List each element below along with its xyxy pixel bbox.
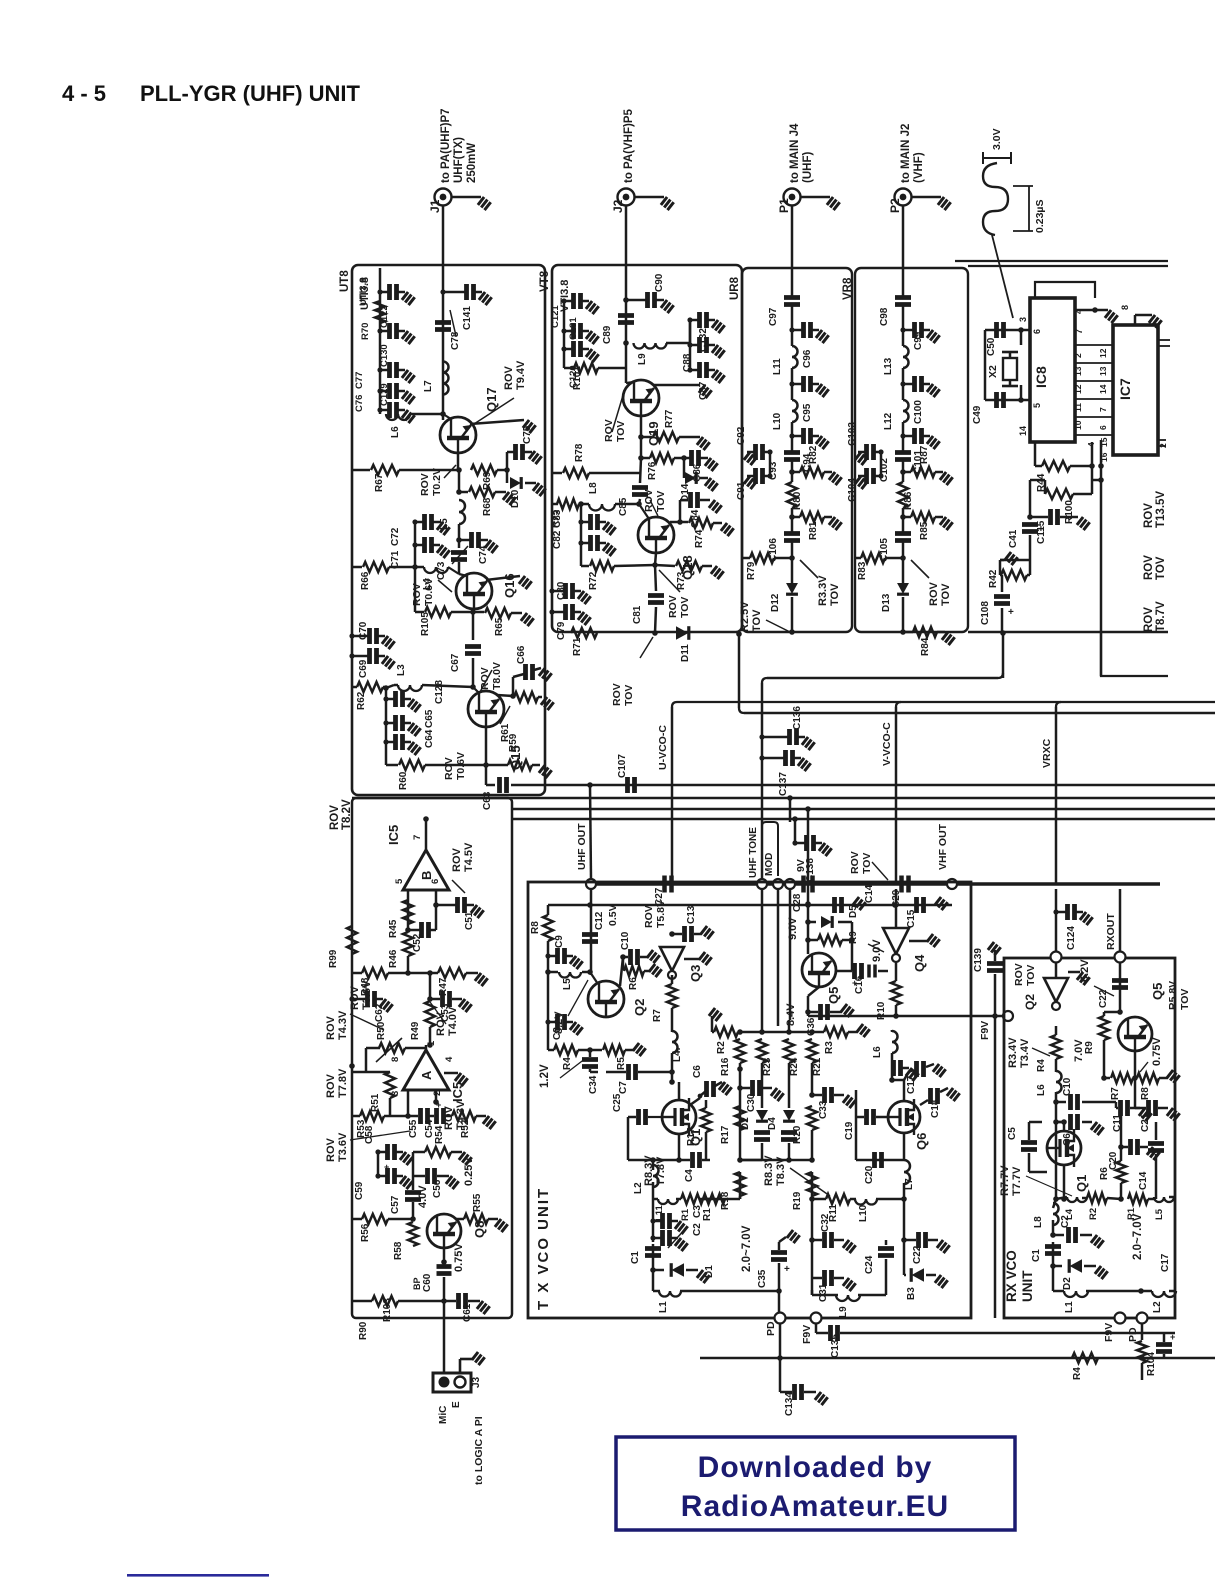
- resistor R101: [564, 367, 574, 370]
- label box around MOD: [762, 822, 778, 876]
- transistor Q19: [625, 343, 628, 383]
- svg-text:L1: L1: [1064, 1301, 1075, 1313]
- capacitor C2 variable: [653, 1237, 661, 1240]
- capacitor C1rx: [1045, 1247, 1061, 1254]
- svg-text:L13: L13: [883, 357, 894, 375]
- sub-box below IC7: [1101, 632, 1168, 676]
- svg-text:C7: C7: [618, 1081, 629, 1094]
- capacitor C88: [690, 344, 698, 347]
- svg-text:ROV: ROV: [443, 757, 455, 780]
- resistor R65: [473, 611, 484, 614]
- capacitor C50: [997, 322, 1004, 338]
- svg-text:ROV: ROV: [849, 851, 861, 874]
- blue underline bottom left: [127, 1574, 269, 1577]
- capacitor C90: [626, 299, 640, 302]
- svg-text:C32: C32: [820, 1213, 831, 1232]
- resistors R7rx R8rx: [1104, 1077, 1110, 1080]
- resistor R2 row: [709, 1008, 722, 1021]
- capacitor C61: [444, 1300, 456, 1303]
- diode D10: [506, 470, 509, 483]
- svg-text:F9V: F9V: [1103, 1323, 1115, 1342]
- svg-text:C55: C55: [408, 1119, 419, 1138]
- resistor R59: [485, 727, 488, 765]
- svg-text:C41: C41: [1008, 529, 1019, 548]
- svg-text:C16: C16: [854, 975, 865, 994]
- svg-text:ROV: ROV: [603, 419, 615, 442]
- row L11 R1: [658, 1199, 678, 1204]
- capacitor C29: [902, 876, 909, 893]
- IC U8 loop wire top: [1035, 282, 1095, 298]
- svg-text:ROV: ROV: [1013, 963, 1025, 986]
- wire y678 line: [767, 677, 998, 680]
- capacitor C131: [564, 300, 572, 303]
- svg-text:4: 4: [444, 1056, 455, 1062]
- op-amp IC5B: [403, 850, 449, 890]
- inductor L7tx: [904, 1160, 910, 1184]
- svg-text:R3: R3: [824, 1041, 835, 1054]
- capacitor C59: [378, 1175, 386, 1178]
- svg-text:2.0~7.0V: 2.0~7.0V: [1132, 1213, 1144, 1260]
- node F9V on RX box edge: [1003, 1011, 1013, 1021]
- capacitor C67 series: [472, 612, 475, 640]
- svg-text:U-VCO-C: U-VCO-C: [657, 725, 669, 770]
- svg-text:7: 7: [412, 835, 423, 840]
- svg-text:6: 6: [1032, 329, 1042, 334]
- svg-text:PD: PD: [1127, 1327, 1139, 1342]
- pointer R8.3V line: [790, 1168, 830, 1196]
- transistor Q3 buffer: [660, 947, 684, 971]
- svg-text:C95: C95: [802, 403, 813, 422]
- svg-text:R2.5V: R2.5V: [739, 601, 751, 632]
- resistor R9 row: [805, 937, 811, 943]
- svg-text:C96: C96: [802, 349, 813, 368]
- wire Q17 emitter down: [457, 453, 460, 470]
- svg-text:C75: C75: [522, 425, 533, 444]
- svg-text:R103: R103: [382, 1298, 393, 1322]
- wire bus 2: [512, 808, 1215, 811]
- svg-text:R50: R50: [376, 1021, 387, 1040]
- capacitor C86: [684, 457, 690, 460]
- svg-text:C28: C28: [792, 893, 803, 912]
- svg-text:R80: R80: [792, 491, 803, 510]
- capacitor C104: [875, 475, 881, 478]
- Q16 emitter down: [473, 609, 474, 612]
- capacitor C75: [506, 452, 509, 470]
- svg-text:R42: R42: [988, 569, 999, 588]
- capacitor C17tx: [889, 1077, 895, 1083]
- inductor L3: [398, 685, 422, 691]
- capacitor C138: [795, 842, 805, 845]
- capacitor C136: [762, 736, 788, 739]
- svg-text:R62: R62: [356, 691, 367, 710]
- capacitor C54 series: [429, 1115, 434, 1118]
- svg-text:R83: R83: [857, 561, 868, 580]
- wires row 1160: [737, 1157, 743, 1163]
- svg-text:C15: C15: [906, 909, 917, 928]
- vertical x739 from D11 line: [736, 631, 742, 637]
- resistor R80: [787, 482, 797, 508]
- node 9V third: [785, 879, 795, 889]
- svg-text:VHF OUT: VHF OUT: [937, 823, 949, 870]
- svg-text:IC5: IC5: [386, 825, 401, 845]
- resistor R78: [552, 472, 562, 475]
- svg-text:ROV: ROV: [479, 667, 491, 690]
- resistor R81: [789, 514, 795, 520]
- resistor R66: [352, 566, 362, 569]
- Q18 collector caps C84 R74: [670, 521, 680, 524]
- resistor R52: [445, 1115, 452, 1118]
- svg-text:L5: L5: [562, 978, 573, 990]
- svg-text:C80: C80: [556, 581, 567, 600]
- capacitor C82: [581, 542, 589, 545]
- svg-text:UT8: UT8: [339, 270, 351, 292]
- connector P1: [784, 189, 801, 206]
- svg-text:C70: C70: [358, 621, 369, 640]
- pointer ROV T4.0V: [430, 1002, 446, 1024]
- svg-text:T5.8V: T5.8V: [655, 900, 667, 928]
- resistor R85: [900, 514, 906, 520]
- capacitor C72: [415, 521, 423, 524]
- svg-text:+: +: [1008, 607, 1014, 618]
- svg-text:ROV: ROV: [451, 848, 463, 873]
- svg-text:T13.5V: T13.5V: [1155, 491, 1167, 528]
- capacitor C20rx: [1118, 1144, 1124, 1150]
- svg-text:14: 14: [1018, 426, 1028, 436]
- svg-text:C137: C137: [778, 772, 789, 796]
- capacitor C13: [669, 931, 675, 937]
- svg-text:T4.3V: T4.3V: [337, 1010, 349, 1040]
- svg-text:Q6: Q6: [914, 1133, 929, 1150]
- wire P1 down: [791, 206, 794, 269]
- svg-text:ROV: ROV: [643, 905, 655, 928]
- svg-text:C81: C81: [632, 605, 643, 624]
- resistor R6: [622, 957, 625, 970]
- vertical x1003 from C108: [1000, 630, 1006, 636]
- svg-text:C104: C104: [847, 478, 858, 502]
- capacitor C71: [415, 544, 423, 547]
- svg-text:L2: L2: [1152, 1301, 1163, 1313]
- pointer ROV TOV Q18 emitter: [659, 570, 680, 592]
- inductor L4: [415, 566, 424, 569]
- svg-text:VT8: VT8: [539, 270, 551, 292]
- svg-text:C69: C69: [358, 659, 369, 678]
- Q6 source down: [903, 1133, 906, 1160]
- svg-text:ROV: ROV: [611, 683, 623, 706]
- svg-text:0.23µS: 0.23µS: [1034, 200, 1046, 234]
- buffer Q4: [895, 889, 898, 928]
- transistor Q15: [473, 687, 479, 693]
- pin4 gnd: [444, 1072, 458, 1075]
- vertical x672 U-VCO-C: [671, 707, 674, 884]
- svg-text:R1: R1: [680, 1208, 691, 1221]
- svg-text:13: 13: [1098, 366, 1108, 376]
- capacitor C30: [740, 1087, 750, 1090]
- capacitor C85 series: [640, 458, 641, 483]
- resistor R48: [352, 972, 362, 975]
- svg-text:to LOGIC A PI: to LOGIC A PI: [473, 1416, 485, 1485]
- svg-text:R4: R4: [1072, 1367, 1083, 1380]
- inductor L1rx: [1052, 1266, 1055, 1291]
- svg-text:R72: R72: [588, 571, 599, 590]
- IC8 pin4 gnd: [1075, 309, 1100, 312]
- IC7 pin 8 gnd: [1134, 315, 1137, 325]
- capacitor C130: [380, 330, 388, 333]
- diode D12: [786, 583, 798, 594]
- svg-text:T X VCO UNIT: T X VCO UNIT: [535, 1187, 552, 1310]
- diode D5 row: [805, 919, 811, 925]
- wire Q16 collector gnd: [486, 576, 520, 580]
- svg-text:C35: C35: [757, 1269, 768, 1288]
- capacitor C76: [380, 409, 388, 412]
- connector P2: [895, 189, 912, 206]
- capacitor C141 row: [442, 268, 445, 420]
- svg-text:to MAIN J2: to MAIN J2: [900, 124, 912, 183]
- svg-text:R82: R82: [808, 445, 819, 464]
- svg-text:Q5: Q5: [1150, 983, 1165, 1000]
- capacitor C69: [352, 655, 368, 658]
- svg-text:ROV: ROV: [1143, 555, 1155, 580]
- IC8-IC7 pin bus lines: [1075, 344, 1113, 346]
- capacitor C2rx: [1050, 1232, 1056, 1238]
- diode D2rx: [1050, 1263, 1056, 1269]
- resistor R56: [352, 1218, 362, 1221]
- svg-text:C51: C51: [464, 911, 475, 930]
- svg-text:ROV: ROV: [643, 489, 655, 512]
- svg-text:R2: R2: [1088, 1208, 1099, 1220]
- svg-text:R7: R7: [1110, 1087, 1121, 1100]
- svg-text:TOV: TOV: [751, 609, 763, 632]
- wire pins 5/6 down: [407, 890, 410, 930]
- svg-text:C77: C77: [354, 372, 365, 389]
- capacitor C24: [878, 1249, 894, 1256]
- svg-text:5: 5: [394, 878, 405, 884]
- svg-text:C135: C135: [830, 1334, 841, 1358]
- waveform sketch: [983, 163, 1008, 235]
- capacitor C135: [815, 1323, 818, 1333]
- svg-text:R101: R101: [572, 366, 583, 390]
- svg-text:to PA(VHF)P5: to PA(VHF)P5: [623, 108, 635, 183]
- transistor Q8: [427, 1214, 461, 1248]
- inductor L9 bottom: [811, 1290, 814, 1295]
- capacitor C35: [787, 1230, 800, 1243]
- capacitor C87: [690, 369, 698, 372]
- wire bus y713: [744, 712, 1215, 715]
- svg-text:R23: R23: [762, 1057, 773, 1076]
- svg-text:J3: J3: [471, 1376, 482, 1388]
- svg-text:ROV: ROV: [1143, 607, 1155, 632]
- svg-text:L8: L8: [1033, 1216, 1044, 1228]
- svg-text:R86: R86: [903, 491, 914, 510]
- resistor R46: [403, 932, 413, 956]
- svg-text:TOV: TOV: [1179, 989, 1191, 1010]
- resistor R86: [898, 482, 908, 508]
- row R1 L11 left: [700, 1198, 740, 1201]
- resistor R20: [807, 1106, 817, 1130]
- svg-text:UHF(TX): UHF(TX): [453, 137, 465, 183]
- svg-text:+: +: [384, 1162, 389, 1172]
- inductor L13: [903, 346, 909, 368]
- wires Q6 bottom row: [886, 1198, 904, 1201]
- svg-text:C13: C13: [686, 905, 697, 924]
- svg-text:RXOUT: RXOUT: [1105, 913, 1117, 950]
- resistor R79: [742, 557, 750, 560]
- capacitor C12 series: [582, 935, 598, 942]
- svg-text:R100: R100: [1064, 500, 1075, 524]
- IC7: [1113, 325, 1158, 455]
- svg-text:6: 6: [430, 879, 441, 884]
- IC7 right pins: [1158, 339, 1170, 341]
- svg-text:C121: C121: [550, 305, 561, 328]
- svg-text:R73: R73: [676, 571, 687, 590]
- resistor R82: [789, 469, 795, 475]
- wire P2 down: [902, 206, 905, 269]
- verticals UHF TONE / MOD: [761, 889, 764, 1020]
- inductor L10: [792, 400, 798, 422]
- svg-text:4.0V: 4.0V: [417, 1185, 429, 1208]
- svg-text:R58: R58: [393, 1241, 404, 1260]
- inductor L8: [1053, 1203, 1059, 1225]
- diode D4 branch: [788, 1088, 791, 1108]
- capacitor C63 series: [485, 765, 488, 785]
- capacitor C25: [648, 1116, 662, 1118]
- svg-text:R55: R55: [472, 1193, 483, 1212]
- node RXOUT: [1115, 952, 1126, 963]
- capacitor C52 series: [408, 929, 420, 932]
- inductor L4tx: [672, 1031, 678, 1053]
- svg-text:C9: C9: [554, 935, 565, 948]
- svg-text:TOV: TOV: [615, 421, 627, 442]
- capacitor C95: [792, 383, 802, 386]
- capacitor C15: [917, 897, 924, 913]
- svg-text:C14: C14: [864, 884, 875, 903]
- long wire y1358: [700, 1357, 1215, 1360]
- diode D3: [912, 1268, 924, 1282]
- svg-text:Q17: Q17: [484, 387, 499, 412]
- box UR8: [742, 268, 852, 632]
- capacitor C10: [623, 956, 628, 959]
- capacitor C6rx: [1053, 1119, 1059, 1125]
- resistor R6rx: [1116, 1161, 1126, 1183]
- svg-text:C98: C98: [879, 307, 890, 326]
- resistor R58: [408, 1222, 418, 1246]
- svg-text:C89: C89: [602, 325, 613, 344]
- resistor R4tx: [554, 1045, 578, 1055]
- svg-text:VR8: VR8: [842, 277, 854, 300]
- inductor L6tx: [891, 1030, 894, 1032]
- svg-text:L5: L5: [1154, 1208, 1165, 1220]
- pointer ROV TOV bottom: [640, 637, 653, 658]
- wire bus 3: [512, 818, 1215, 821]
- capacitor C9: [548, 955, 556, 958]
- svg-text:0.5V: 0.5V: [607, 904, 619, 926]
- svg-text:+: +: [436, 1100, 441, 1110]
- svg-text:R99: R99: [328, 949, 339, 968]
- resistor R73: [655, 565, 675, 566]
- svg-text:ROV: ROV: [1143, 503, 1155, 528]
- svg-text:to PA(UHF)P7: to PA(UHF)P7: [440, 108, 452, 183]
- svg-text:R70: R70: [360, 323, 371, 340]
- buffer Q2rx: [1055, 962, 1058, 978]
- svg-text:C52: C52: [412, 933, 423, 952]
- resistor R24 column: [784, 1039, 794, 1063]
- resistor R53: [352, 1115, 360, 1118]
- svg-text:T3.4V: T3.4V: [1019, 1038, 1031, 1068]
- capacitor C79: [552, 611, 564, 614]
- svg-text:C1: C1: [1031, 1249, 1042, 1262]
- wire J1 down: [442, 206, 445, 269]
- Q5 emitter down C36: [808, 987, 819, 996]
- capacitor C134: [779, 1358, 782, 1392]
- svg-text:C79: C79: [556, 621, 567, 640]
- svg-text:R8: R8: [1140, 1087, 1151, 1100]
- capacitor C108 polarized: [994, 597, 1010, 604]
- svg-text:D2: D2: [740, 1117, 751, 1130]
- svg-text:C139: C139: [973, 948, 984, 972]
- node F9V tx: [811, 1313, 822, 1324]
- inductor L5tx: [545, 969, 551, 975]
- svg-text:8: 8: [390, 1057, 401, 1062]
- capacitor C7 series: [590, 1071, 598, 1074]
- svg-text:R49: R49: [410, 1021, 421, 1040]
- svg-text:UTI3.8: UTI3.8: [358, 277, 369, 306]
- wire UHF OUT vertical: [590, 785, 591, 879]
- svg-text:C20: C20: [864, 1165, 875, 1184]
- svg-text:C10: C10: [620, 931, 631, 950]
- svg-text:TOV: TOV: [679, 597, 691, 618]
- op-amp IC5A: [403, 1050, 449, 1090]
- node F9V rx: [1115, 1313, 1126, 1324]
- resistor R42 loop: [1000, 559, 1030, 562]
- inductor L12: [903, 400, 909, 422]
- pointer line to IC8: [992, 235, 1013, 318]
- svg-text:R52: R52: [460, 1119, 471, 1138]
- svg-text:C103: C103: [847, 422, 858, 446]
- svg-text:C134: C134: [784, 1392, 795, 1416]
- capacitor C74: [456, 537, 462, 543]
- resistor R45: [403, 900, 413, 924]
- resistor R72: [581, 565, 589, 568]
- svg-text:TOV: TOV: [655, 491, 667, 512]
- inductor L2: [653, 1165, 659, 1187]
- svg-text:C61: C61: [462, 1303, 473, 1322]
- wire bus C27 line: [591, 882, 1160, 885]
- inductor L6: [386, 414, 410, 420]
- capacitor C49: [997, 392, 1004, 408]
- resistor R75: [552, 503, 558, 506]
- svg-text:8: 8: [1120, 305, 1130, 310]
- capacitor C58: [378, 1151, 386, 1154]
- svg-text:C108: C108: [980, 601, 991, 625]
- resistor R4b: [1072, 1353, 1098, 1363]
- capacitor C70: [352, 635, 368, 638]
- svg-text:VRXC: VRXC: [1041, 738, 1053, 768]
- resistor R76: [640, 437, 643, 458]
- svg-text:R65: R65: [494, 617, 505, 636]
- svg-text:L10: L10: [772, 412, 783, 430]
- svg-text:ROV: ROV: [325, 1074, 337, 1099]
- svg-text:R1: R1: [702, 1208, 713, 1221]
- svg-text:C83: C83: [552, 509, 563, 528]
- svg-text:R3.4V: R3.4V: [1007, 1037, 1019, 1068]
- svg-text:L6: L6: [872, 1046, 883, 1058]
- FET Q1rx: [1047, 1131, 1081, 1165]
- svg-text:R67: R67: [374, 473, 385, 492]
- capacitor C3: [653, 1220, 661, 1223]
- capacitor C101: [903, 435, 913, 438]
- resistor R3: [824, 1027, 848, 1037]
- resistor R84: [900, 629, 906, 635]
- svg-text:3.0V: 3.0V: [991, 128, 1003, 150]
